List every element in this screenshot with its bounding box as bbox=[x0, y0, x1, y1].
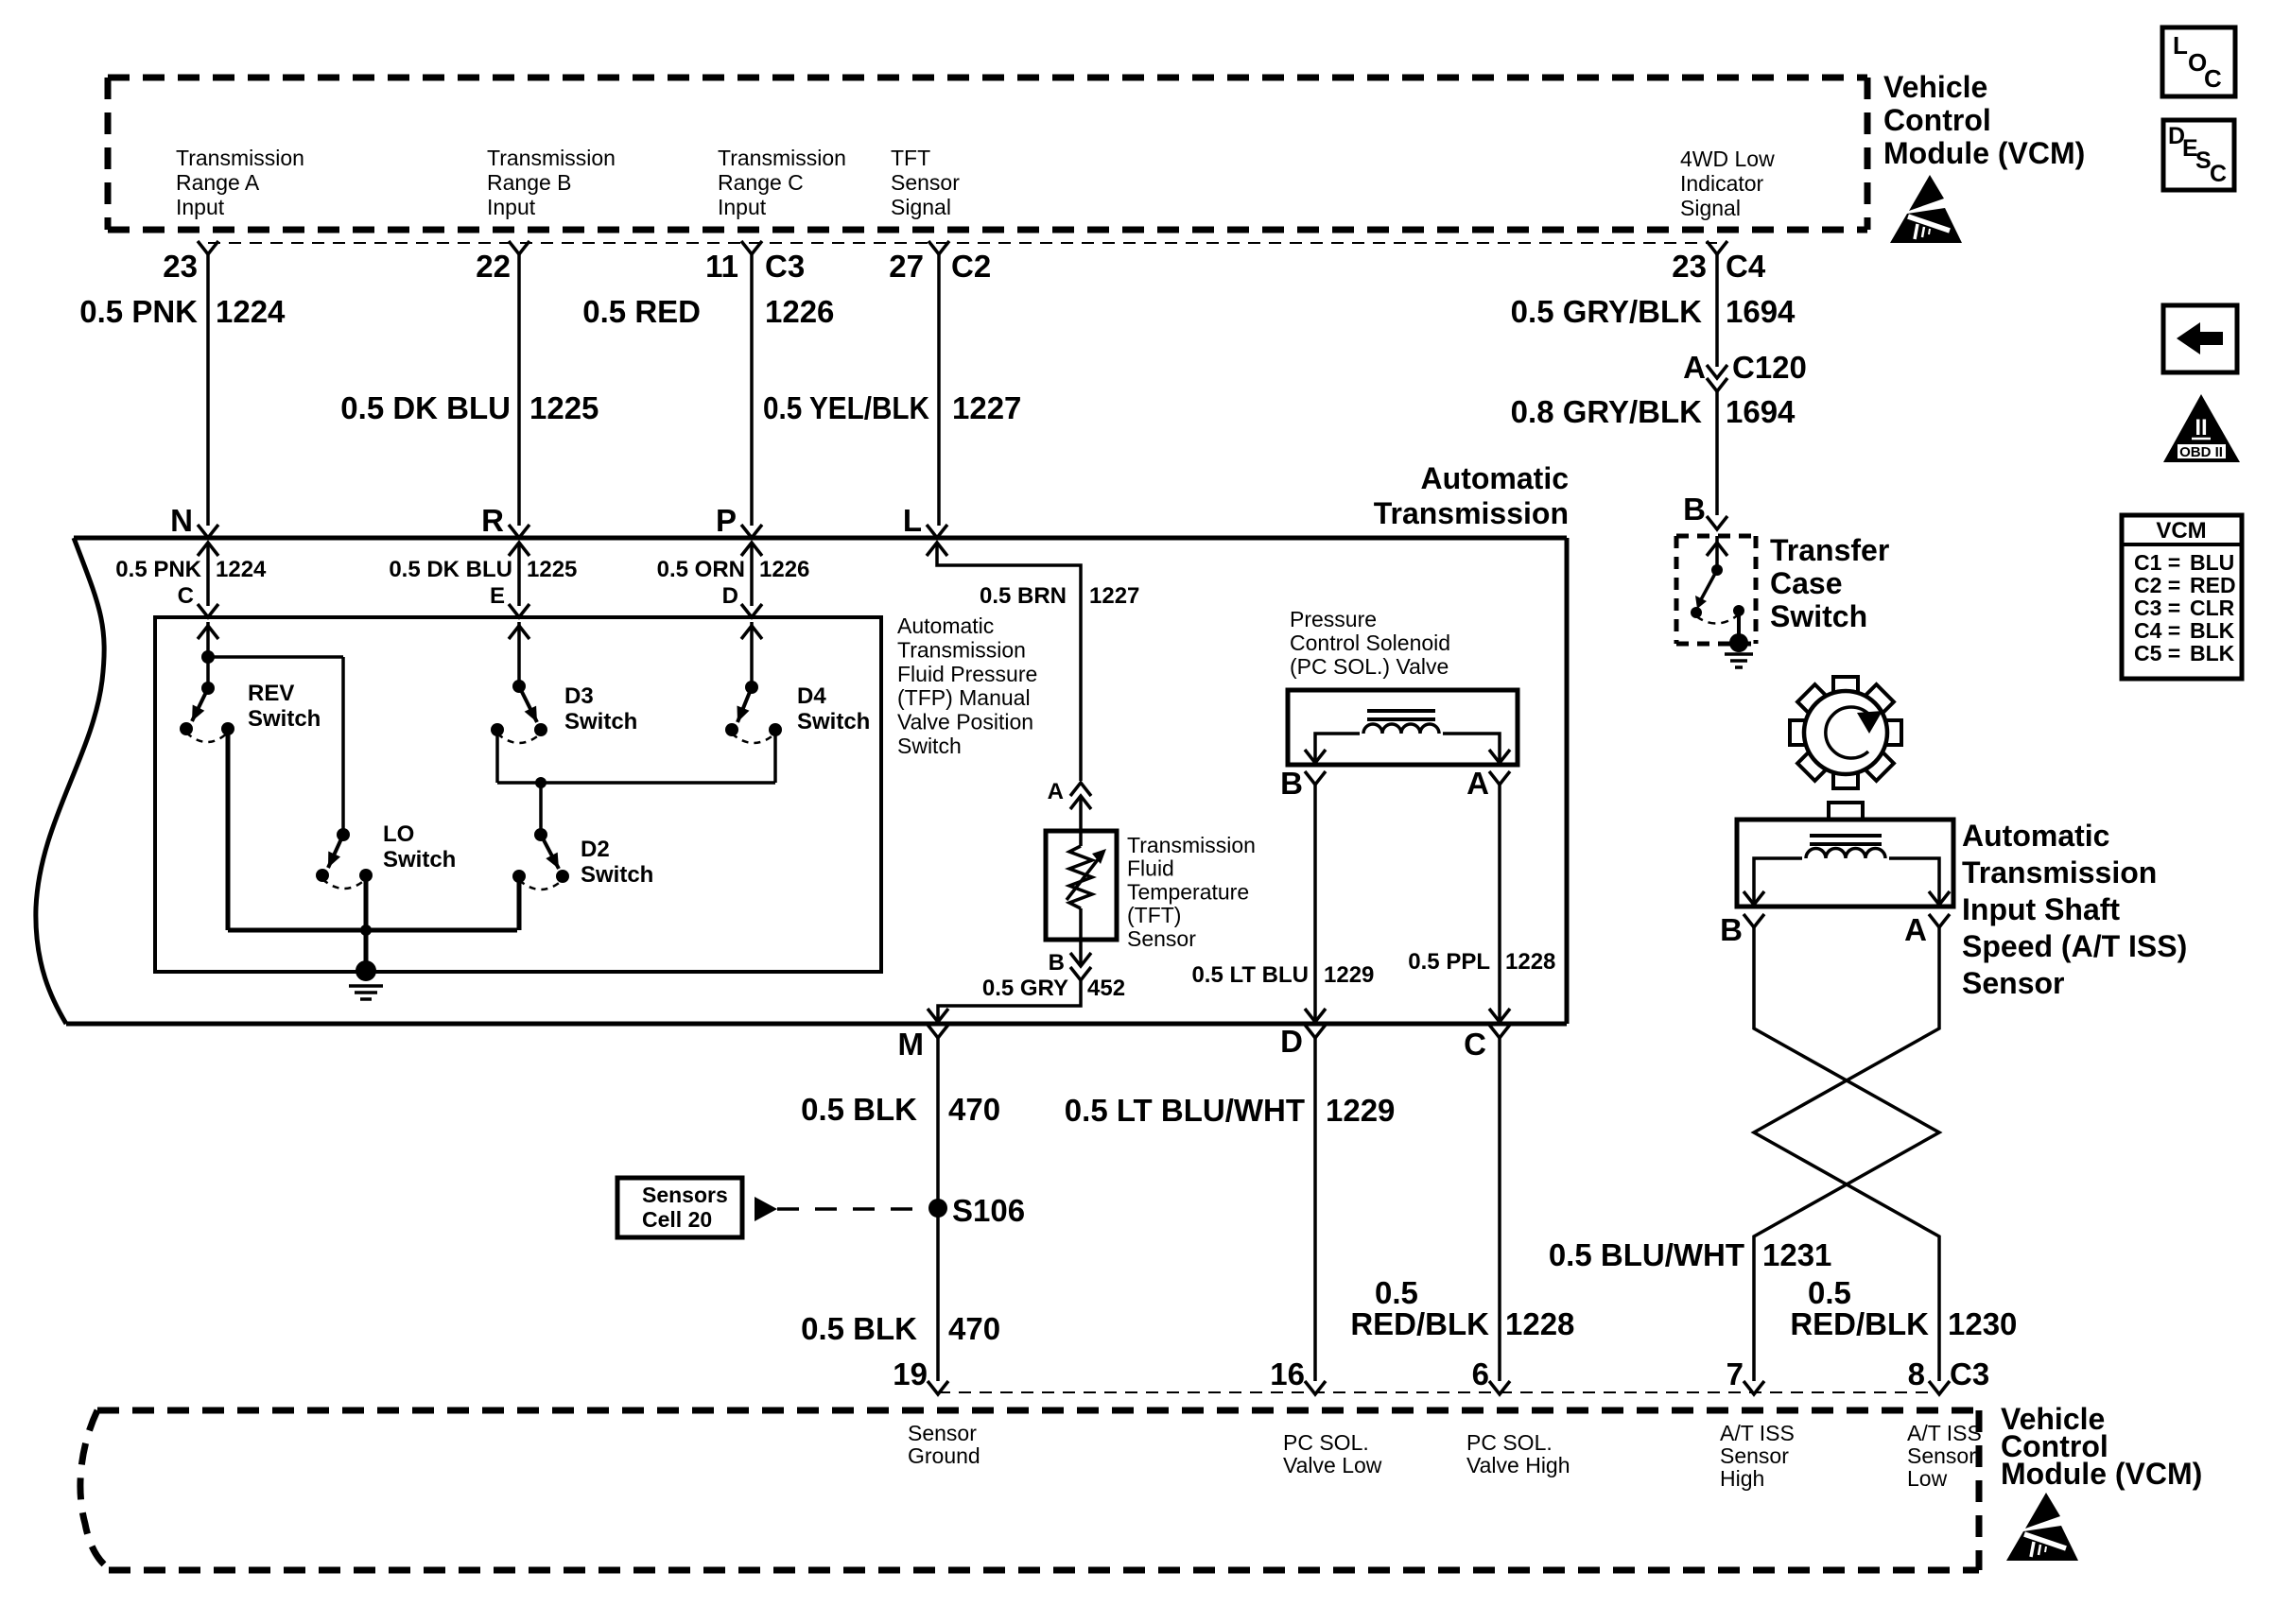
svg-text:1224: 1224 bbox=[216, 557, 267, 582]
svg-text:(PC SOL.) Valve: (PC SOL.) Valve bbox=[1290, 654, 1449, 679]
svg-text:CLR: CLR bbox=[2190, 596, 2235, 620]
svg-text:Temperature: Temperature bbox=[1127, 879, 1249, 904]
wire 0.5 ORN 1226 (inside) bbox=[750, 543, 754, 606]
legend table: VCM connectors bbox=[2122, 515, 2242, 679]
VCM pin 23 C4 (4WD low) bbox=[1707, 241, 1727, 254]
svg-text:Signal: Signal bbox=[891, 195, 951, 219]
ISS pin B bbox=[1744, 914, 1764, 927]
wire REV contact to ground rail bbox=[226, 729, 231, 930]
svg-text:1228: 1228 bbox=[1505, 949, 1555, 975]
svg-text:0.5 BLK: 0.5 BLK bbox=[801, 1092, 917, 1127]
svg-text:0.5 PNK: 0.5 PNK bbox=[115, 557, 201, 582]
icon: OBD II triangle bbox=[2163, 394, 2240, 462]
TFT resistor (variable) bbox=[1079, 831, 1083, 846]
svg-text:L: L bbox=[2173, 31, 2188, 60]
reference box: Sensors Cell 20 bbox=[617, 1178, 742, 1237]
svg-text:470: 470 bbox=[948, 1311, 1000, 1346]
svg-text:0.5 YEL/BLK: 0.5 YEL/BLK bbox=[763, 390, 929, 425]
VCM pin 8 C3 bbox=[1929, 1381, 1950, 1394]
icon: back arrow box bbox=[2163, 305, 2237, 372]
svg-text:VCM: VCM bbox=[2156, 518, 2206, 544]
transmission pin L bbox=[927, 525, 947, 538]
component box: TFP manual valve position switch bbox=[155, 617, 881, 972]
svg-text:1229: 1229 bbox=[1326, 1093, 1395, 1128]
VCM pin 22 (Range B) bbox=[509, 241, 529, 254]
svg-text:Sensor: Sensor bbox=[908, 1421, 977, 1445]
svg-text:1225: 1225 bbox=[529, 390, 599, 425]
mid rail D3-D4 bbox=[497, 781, 775, 785]
svg-text:1230: 1230 bbox=[1948, 1306, 2017, 1341]
module box: Vehicle Control Module (VCM), top bbox=[108, 78, 1867, 230]
svg-text:OBD II: OBD II bbox=[2179, 444, 2223, 460]
svg-text:N: N bbox=[170, 503, 193, 538]
svg-text:Module (VCM): Module (VCM) bbox=[2001, 1457, 2202, 1491]
svg-text:C3: C3 bbox=[1950, 1356, 1989, 1391]
svg-text:C120: C120 bbox=[1732, 350, 1807, 385]
svg-text:0.5 PNK: 0.5 PNK bbox=[79, 294, 198, 329]
PC SOL pin A bbox=[1489, 771, 1510, 785]
svg-text:22: 22 bbox=[476, 249, 511, 284]
svg-text:C: C bbox=[2204, 64, 2222, 93]
switch LO bbox=[337, 828, 350, 841]
VCM pin 27 C2 (TFT signal) bbox=[928, 241, 949, 254]
svg-text:7: 7 bbox=[1726, 1356, 1744, 1391]
svg-text:C: C bbox=[2210, 161, 2227, 187]
transmission pin P bbox=[741, 525, 762, 538]
wire 0.5 GRY 452 to M bbox=[938, 980, 1081, 1022]
svg-text:B: B bbox=[1720, 912, 1743, 947]
svg-text:Switch: Switch bbox=[564, 709, 637, 734]
component box: A/T ISS sensor bbox=[1829, 803, 1863, 820]
svg-text:Vehicle: Vehicle bbox=[1883, 70, 1987, 104]
svg-text:Sensor: Sensor bbox=[1962, 966, 2064, 1000]
connector dash line bottom bbox=[938, 1391, 1937, 1393]
svg-text:1226: 1226 bbox=[765, 294, 834, 329]
svg-text:1226: 1226 bbox=[759, 557, 809, 582]
module box: Vehicle Control Module (VCM), bottom (dashed) bbox=[80, 1410, 1979, 1570]
wire 0.5 DK BLU 1225 (inside) bbox=[517, 543, 521, 606]
wire PC SOL B to D (0.5 LT BLU 1229) bbox=[1313, 785, 1317, 1022]
svg-text:Fluid: Fluid bbox=[1127, 856, 1174, 881]
svg-text:PC SOL.: PC SOL. bbox=[1283, 1430, 1369, 1455]
svg-text:R: R bbox=[481, 503, 504, 538]
component box: Automatic Transmission bbox=[36, 538, 104, 1024]
TFT terminal A bbox=[1070, 783, 1091, 796]
svg-text:0.5 ORN: 0.5 ORN bbox=[657, 557, 745, 582]
transmission exit M bbox=[928, 1009, 948, 1022]
TFP entry at x=549 bbox=[509, 604, 529, 617]
svg-text:Transfer: Transfer bbox=[1770, 533, 1889, 567]
TFP entry at x=795 bbox=[741, 604, 762, 617]
icon: LOC box bbox=[2162, 27, 2235, 96]
svg-text:Indicator: Indicator bbox=[1680, 171, 1764, 196]
VCM pin 23 (Range A) bbox=[198, 241, 218, 254]
svg-text:1228: 1228 bbox=[1505, 1306, 1574, 1341]
wire 0.5 BLK 470 (sensor ground) bbox=[936, 1038, 940, 1381]
svg-text:23: 23 bbox=[163, 249, 198, 284]
svg-text:C4: C4 bbox=[1726, 249, 1766, 284]
svg-text:D3: D3 bbox=[564, 683, 594, 709]
svg-text:B: B bbox=[1280, 766, 1303, 801]
svg-text:LO: LO bbox=[383, 821, 414, 847]
ESD symbol bottom bbox=[2006, 1493, 2078, 1561]
svg-text:0.5 DK BLU: 0.5 DK BLU bbox=[340, 390, 511, 425]
svg-text:11: 11 bbox=[705, 249, 738, 284]
switch D4 bbox=[745, 681, 758, 694]
svg-text:B: B bbox=[1683, 492, 1706, 527]
VCM pin 16 bbox=[1305, 1381, 1326, 1394]
svg-text:D4: D4 bbox=[797, 683, 826, 709]
svg-text:PC SOL.: PC SOL. bbox=[1466, 1430, 1553, 1455]
svg-text:C: C bbox=[1464, 1027, 1486, 1062]
svg-text:Sensor: Sensor bbox=[1127, 926, 1196, 951]
svg-text:A/T ISS: A/T ISS bbox=[1907, 1421, 1982, 1445]
svg-text:Case: Case bbox=[1770, 566, 1843, 600]
svg-text:Control Solenoid: Control Solenoid bbox=[1290, 631, 1450, 655]
svg-text:High: High bbox=[1720, 1466, 1764, 1491]
svg-text:(TFP) Manual: (TFP) Manual bbox=[897, 685, 1031, 710]
svg-text:Transmission: Transmission bbox=[1374, 496, 1569, 530]
VCM pin 11 C3 (Range C) bbox=[741, 241, 762, 254]
wire LO contact to ground bbox=[364, 875, 369, 972]
ground at transfer case bbox=[1729, 633, 1748, 652]
svg-text:Sensors: Sensors bbox=[642, 1183, 728, 1207]
svg-text:Input: Input bbox=[718, 195, 767, 219]
svg-text:Pressure: Pressure bbox=[1290, 607, 1377, 631]
D3 left contact drop bbox=[495, 730, 499, 783]
svg-text:Module (VCM): Module (VCM) bbox=[1883, 136, 2085, 170]
svg-text:1227: 1227 bbox=[952, 390, 1021, 425]
PC SOL pin B bbox=[1305, 771, 1326, 785]
wire 1227 YEL/BLK (TFT signal) bbox=[937, 254, 941, 526]
svg-text:1225: 1225 bbox=[527, 557, 577, 582]
switch REV bbox=[201, 682, 215, 695]
svg-text:A: A bbox=[1466, 766, 1489, 801]
svg-text:1224: 1224 bbox=[216, 294, 286, 329]
ground at TFP box bottom bbox=[356, 960, 376, 981]
svg-text:0.5: 0.5 bbox=[1808, 1275, 1851, 1310]
wire 1224 PNK (Range A) bbox=[206, 254, 210, 526]
svg-text:Speed (A/T ISS): Speed (A/T ISS) bbox=[1962, 929, 2187, 963]
switch D2 feed bbox=[539, 783, 543, 835]
wire 1694 GRY/BLK (4WD low) bbox=[1715, 254, 1719, 367]
svg-text:D: D bbox=[722, 583, 738, 609]
svg-text:1694: 1694 bbox=[1726, 294, 1796, 329]
svg-text:1227: 1227 bbox=[1089, 583, 1139, 609]
svg-text:0.5 BRN: 0.5 BRN bbox=[980, 583, 1067, 609]
svg-text:Valve Position: Valve Position bbox=[897, 710, 1033, 734]
svg-text:452: 452 bbox=[1087, 976, 1125, 1001]
svg-text:4WD Low: 4WD Low bbox=[1680, 147, 1775, 171]
VCM pin 6 bbox=[1489, 1381, 1510, 1394]
svg-text:C1 =: C1 = bbox=[2134, 550, 2180, 575]
svg-text:Switch: Switch bbox=[383, 847, 456, 872]
svg-text:II: II bbox=[2195, 415, 2207, 441]
svg-text:RED/BLK: RED/BLK bbox=[1350, 1306, 1489, 1341]
svg-text:16: 16 bbox=[1270, 1356, 1305, 1391]
transmission pin N bbox=[198, 525, 218, 538]
svg-text:Switch: Switch bbox=[797, 709, 870, 734]
TFP entry at x=220 bbox=[198, 604, 218, 617]
svg-text:Range B: Range B bbox=[487, 170, 572, 195]
svg-text:0.5 LT BLU: 0.5 LT BLU bbox=[1191, 962, 1309, 988]
icon: DESC box bbox=[2163, 120, 2234, 190]
svg-text:8: 8 bbox=[1908, 1356, 1925, 1391]
svg-text:Input: Input bbox=[487, 195, 536, 219]
svg-text:A: A bbox=[1683, 350, 1706, 385]
svg-text:Sensor: Sensor bbox=[1907, 1443, 1976, 1468]
svg-text:Automatic: Automatic bbox=[897, 613, 994, 638]
svg-text:Fluid Pressure: Fluid Pressure bbox=[897, 662, 1037, 686]
ground rail bbox=[228, 928, 517, 933]
svg-text:M: M bbox=[898, 1027, 925, 1062]
svg-text:P: P bbox=[716, 503, 737, 538]
svg-text:A: A bbox=[1048, 779, 1064, 804]
svg-text:TFT: TFT bbox=[891, 146, 930, 170]
switch D2 bbox=[534, 828, 547, 841]
transfer case switch internals bbox=[1715, 536, 1719, 570]
wire PC SOL A to C (0.5 PPL 1228) bbox=[1498, 785, 1501, 1022]
svg-text:0.5: 0.5 bbox=[1375, 1275, 1418, 1310]
svg-text:BLK: BLK bbox=[2190, 618, 2235, 643]
svg-text:C: C bbox=[178, 583, 194, 609]
component box: Transfer Case Switch (dashed) bbox=[1676, 536, 1756, 644]
svg-text:E: E bbox=[490, 583, 505, 609]
svg-text:C4 =: C4 = bbox=[2134, 618, 2180, 643]
svg-text:Switch: Switch bbox=[248, 706, 321, 732]
svg-text:Input Shaft: Input Shaft bbox=[1962, 892, 2120, 926]
svg-text:RED: RED bbox=[2190, 573, 2236, 597]
svg-text:C3 =: C3 = bbox=[2134, 596, 2180, 620]
svg-text:C2 =: C2 = bbox=[2134, 573, 2180, 597]
svg-text:Range C: Range C bbox=[718, 170, 804, 195]
svg-text:Ground: Ground bbox=[908, 1443, 980, 1468]
svg-text:Transmission: Transmission bbox=[487, 146, 616, 170]
svg-text:1231: 1231 bbox=[1762, 1237, 1831, 1272]
svg-text:0.8 GRY/BLK: 0.8 GRY/BLK bbox=[1511, 394, 1702, 429]
svg-text:REV: REV bbox=[248, 681, 294, 706]
D4 right contact drop bbox=[773, 730, 777, 783]
svg-text:Transmission: Transmission bbox=[176, 146, 304, 170]
svg-text:0.5 DK BLU: 0.5 DK BLU bbox=[389, 557, 512, 582]
transmission pin R bbox=[509, 525, 529, 538]
connector dash line C2/C3/C4 bbox=[208, 242, 1717, 244]
svg-text:S106: S106 bbox=[952, 1193, 1025, 1228]
svg-text:A: A bbox=[1904, 912, 1927, 947]
svg-text:0.5 GRY: 0.5 GRY bbox=[982, 976, 1068, 1001]
wire L to TFT (0.5 BRN 1227) bbox=[937, 543, 1081, 781]
gear icon bbox=[1790, 677, 1901, 788]
svg-text:C3: C3 bbox=[765, 249, 805, 284]
svg-text:1694: 1694 bbox=[1726, 394, 1796, 429]
D2 left contact to ground rail bbox=[517, 876, 522, 930]
junction node (C to LO feed) bbox=[201, 650, 215, 664]
svg-text:0.5 RED: 0.5 RED bbox=[582, 294, 701, 329]
ISS pin A bbox=[1929, 914, 1950, 927]
svg-text:Sensor: Sensor bbox=[891, 170, 960, 195]
svg-text:0.5 GRY/BLK: 0.5 GRY/BLK bbox=[1511, 294, 1702, 329]
svg-text:19: 19 bbox=[893, 1356, 928, 1391]
wire 1226 RED (Range C) bbox=[750, 254, 754, 526]
VCM pin 19 bbox=[928, 1381, 948, 1394]
svg-text:Automatic: Automatic bbox=[1962, 819, 2109, 853]
svg-text:B: B bbox=[1049, 950, 1065, 976]
svg-text:Signal: Signal bbox=[1680, 196, 1741, 220]
svg-text:0.5 LT BLU/WHT: 0.5 LT BLU/WHT bbox=[1065, 1093, 1305, 1128]
svg-text:Valve High: Valve High bbox=[1466, 1453, 1570, 1477]
svg-text:1229: 1229 bbox=[1324, 962, 1374, 988]
splice S106 bbox=[928, 1199, 947, 1218]
svg-text:Control: Control bbox=[1883, 103, 1991, 137]
svg-text:BLU: BLU bbox=[2190, 550, 2234, 575]
wire 1225 DK BLU (Range B) bbox=[517, 254, 521, 526]
wire 0.5 PNK 1224 (inside) bbox=[206, 543, 210, 606]
twisted pair wires B->7, A->8 bbox=[1754, 927, 1939, 1381]
svg-text:Valve Low: Valve Low bbox=[1283, 1453, 1382, 1477]
svg-text:BLK: BLK bbox=[2190, 641, 2235, 665]
svg-text:A/T ISS: A/T ISS bbox=[1720, 1421, 1795, 1445]
svg-text:D: D bbox=[1280, 1024, 1303, 1059]
svg-text:L: L bbox=[903, 503, 922, 538]
svg-text:Cell 20: Cell 20 bbox=[642, 1207, 712, 1232]
svg-text:Automatic: Automatic bbox=[1421, 461, 1569, 495]
svg-text:D2: D2 bbox=[581, 837, 610, 862]
svg-text:C5 =: C5 = bbox=[2134, 641, 2180, 665]
svg-text:0.5 PPL: 0.5 PPL bbox=[1408, 949, 1490, 975]
svg-text:Low: Low bbox=[1907, 1466, 1948, 1491]
svg-text:0.5 BLK: 0.5 BLK bbox=[801, 1311, 917, 1346]
ESD symbol top bbox=[1890, 175, 1962, 243]
svg-text:0.5 BLU/WHT: 0.5 BLU/WHT bbox=[1549, 1237, 1744, 1272]
svg-text:Transmission: Transmission bbox=[1127, 833, 1256, 857]
svg-text:Transmission: Transmission bbox=[718, 146, 846, 170]
svg-text:470: 470 bbox=[948, 1092, 1000, 1127]
svg-text:(TFT): (TFT) bbox=[1127, 903, 1181, 927]
inline connector C120 pin A bbox=[1707, 365, 1727, 378]
svg-text:Switch: Switch bbox=[581, 862, 653, 888]
svg-text:Switch: Switch bbox=[1770, 599, 1867, 633]
svg-text:Sensor: Sensor bbox=[1720, 1443, 1789, 1468]
switch D3 bbox=[517, 684, 521, 688]
TFT terminal B bbox=[1079, 940, 1083, 966]
svg-text:Switch: Switch bbox=[897, 734, 962, 758]
wire C to 6 (0.5 RED/BLK 1228) bbox=[1498, 1038, 1501, 1381]
svg-text:RED/BLK: RED/BLK bbox=[1790, 1306, 1929, 1341]
svg-text:Transmission: Transmission bbox=[897, 637, 1026, 662]
transmission exit D bbox=[1305, 1009, 1326, 1022]
component box: TFT sensor bbox=[1046, 831, 1117, 940]
svg-text:6: 6 bbox=[1472, 1356, 1489, 1391]
svg-text:Transmission: Transmission bbox=[1962, 855, 2157, 890]
transmission exit C bbox=[1489, 1009, 1510, 1022]
VCM pin 7 bbox=[1744, 1381, 1764, 1394]
svg-text:23: 23 bbox=[1672, 249, 1707, 284]
svg-text:Input: Input bbox=[176, 195, 225, 219]
svg-text:Range A: Range A bbox=[176, 170, 260, 195]
wire D to 16 (0.5 LT BLU/WHT 1229) bbox=[1313, 1038, 1317, 1381]
svg-text:C2: C2 bbox=[951, 249, 991, 284]
svg-text:27: 27 bbox=[889, 249, 924, 284]
